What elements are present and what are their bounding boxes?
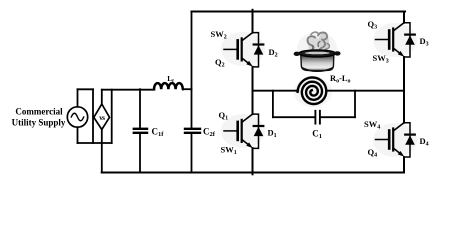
pot handles [294, 52, 300, 56]
svg-text:Utility Supply: Utility Supply [12, 118, 66, 128]
wire: diamond bottom stub to bottom rail [101, 130, 103, 173]
wire: top DC bus [192, 10, 406, 12]
wire: right leg upper [403, 12, 405, 23]
wire: left leg lower [252, 148, 254, 174]
cooking pot with steam (load) [294, 32, 341, 71]
wire: DC link top to inductor [102, 89, 155, 91]
transistor Q3 (IGBT) [376, 23, 415, 57]
wire: AC source bottom lead [77, 127, 79, 143]
wire: source loop mid vertical [92, 89, 94, 143]
pot rim [299, 50, 336, 57]
pot bottom edge [303, 68, 333, 71]
wire: diamond top stub [101, 90, 103, 104]
label: Commercial Utility Supply [12, 107, 66, 128]
capacitor C2f on left DC rail [185, 12, 216, 173]
wire: right leg lower [403, 157, 405, 172]
capacitor C1f [134, 89, 164, 172]
wire: AC source top lead [77, 89, 79, 107]
wire: source loop top [78, 88, 94, 90]
svg-text:Ro-Lo: Ro-Lo [330, 74, 350, 85]
inductor Lf [154, 83, 183, 89]
capacitor C1 plates [314, 111, 316, 124]
capacitor C1 loop: left vertical [272, 91, 274, 118]
wire: load wire right [328, 90, 404, 92]
transistor Q4 (IGBT) [376, 123, 415, 157]
transistor Q2 (IGBT) [224, 33, 263, 67]
wire: inductor to left rail [183, 88, 192, 90]
wire: C1 loop right vertical [354, 91, 356, 118]
work coil spiral (Ro-Lo) [298, 78, 327, 105]
AC source (circle with sine wave) [67, 107, 87, 127]
pot body [301, 55, 334, 70]
svg-text:vs: vs [99, 114, 105, 122]
wire: load wire left [253, 90, 299, 92]
wire: C1 loop bottom left [273, 116, 315, 118]
wire: left leg upper [252, 10, 254, 33]
svg-text:Commercial: Commercial [15, 107, 63, 117]
wire: bottom DC rail [102, 171, 404, 173]
wire: right leg middle [403, 57, 405, 123]
wire: C1 loop bottom right [320, 116, 355, 118]
rectifier vs (diamond) [94, 104, 110, 130]
wire: left leg middle [252, 67, 254, 114]
transistor Q1 (IGBT) [224, 114, 263, 148]
steam [308, 32, 330, 54]
wire: source loop right vertical [111, 90, 113, 143]
wire: source loop bottom [78, 142, 112, 144]
